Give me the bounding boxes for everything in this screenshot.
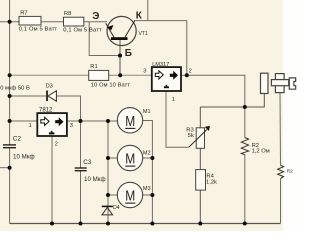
wire M3 left lead: [108, 194, 118, 196]
wire emitter-to-base branch: [89, 22, 120, 56]
capacitor C2: [3, 145, 16, 148]
svg-text:1: 1: [172, 97, 175, 103]
svg-text:2: 2: [189, 69, 192, 75]
node M3 left: [106, 193, 110, 197]
wire M2 left lead: [108, 157, 118, 159]
resistor R4: [196, 170, 206, 191]
regulator U2 7812: [37, 113, 67, 136]
svg-text:10 Мкф: 10 Мкф: [84, 176, 106, 183]
node gnd D4: [106, 222, 110, 226]
svg-text:M3: M3: [143, 186, 151, 192]
svg-text:M1: M1: [143, 109, 151, 115]
svg-text:D4: D4: [113, 205, 120, 211]
wire LM317 pin1 to R3 wiper: [166, 91, 189, 147]
capacitor C3: [75, 168, 87, 171]
svg-text:C2: C2: [13, 135, 22, 142]
svg-text:0,1 Ом 5 Ватт: 0,1 Ом 5 Ватт: [19, 26, 58, 32]
resistor R5 right load zigzag: [278, 165, 284, 178]
wire adj node row y107: [200, 94, 264, 108]
wire R1 row to LM317 pin3: [10, 74, 152, 76]
wire 7812 pin2 down: [51, 136, 53, 224]
node M2 left: [106, 156, 110, 160]
resistor R1: [89, 70, 109, 80]
node gnd 7812: [50, 222, 54, 226]
svg-text:M: M: [125, 189, 135, 205]
node left bus D3: [8, 94, 12, 98]
connector XP1 plug vertical: [275, 74, 284, 93]
wire C3 branch: [80, 121, 82, 224]
wire M3 right lead: [143, 194, 153, 196]
svg-text:7812: 7812: [39, 108, 53, 114]
resistor R8: [64, 17, 84, 26]
regulator U1 LM317: [152, 67, 181, 91]
node top-left corner: [8, 20, 12, 24]
connector XP1 plug bar: [271, 80, 288, 86]
wire R3-R4 link: [199, 148, 201, 169]
svg-text:R1: R1: [90, 64, 97, 70]
node base bypass junction: [118, 54, 122, 58]
node adj row cross: [243, 105, 247, 109]
svg-text:R2: R2: [287, 169, 293, 174]
wire left bus upper: [9, 0, 11, 145]
wire R2 bottom to ground rail: [244, 155, 246, 224]
wire C1 stub: [0, 167, 10, 169]
wire R4 bottom lead: [199, 190, 201, 223]
svg-text:3: 3: [143, 68, 146, 74]
svg-text:К: К: [136, 11, 143, 22]
node left bus C1 stub: [8, 166, 12, 170]
transistor VT1: [106, 16, 137, 45]
wire motors left bus: [107, 121, 109, 224]
wire right load branch lower: [280, 179, 282, 224]
node M2 right: [150, 156, 154, 160]
connector XS1 receptacle: [261, 73, 269, 93]
svg-text:VT1: VT1: [139, 31, 148, 37]
motor M1: [117, 108, 142, 133]
wire collector net to top edge: [147, 0, 149, 21]
svg-text:LM317: LM317: [152, 62, 169, 68]
svg-text:0 мкф 50 В: 0 мкф 50 В: [0, 86, 30, 92]
resistor R2 zigzag: [241, 138, 248, 155]
wire 7812 pin1: [10, 120, 38, 122]
svg-text:1,2 Ом: 1,2 Ом: [252, 148, 270, 154]
wire M1 right lead and right bus: [143, 121, 153, 224]
node base / R1 row: [118, 73, 122, 77]
node D3 out / pin3 row: [79, 119, 83, 123]
node collector / pin2: [185, 73, 189, 77]
wire 7812 pin3 to M1: [67, 120, 117, 122]
node left bus 7812 pin1: [8, 119, 12, 123]
wire M2 right lead: [143, 157, 153, 159]
svg-text:R8: R8: [64, 11, 71, 17]
svg-text:2: 2: [55, 141, 58, 147]
node M3 right: [150, 193, 154, 197]
svg-text:D3: D3: [46, 83, 53, 89]
motor M2: [117, 145, 142, 170]
node motors bus / pin3 row: [106, 119, 110, 123]
svg-text:C3: C3: [83, 159, 92, 166]
wire D3 row: [10, 96, 81, 121]
svg-text:Б: Б: [125, 48, 132, 59]
wire top supply rail: [0, 21, 107, 23]
resistor R7: [19, 16, 41, 25]
svg-text:3: 3: [70, 123, 73, 129]
node gnd right bus: [150, 222, 154, 226]
svg-text:1,2k: 1,2k: [206, 179, 217, 185]
svg-text:Э: Э: [92, 11, 99, 22]
diode D4: [102, 206, 113, 215]
svg-text:5k: 5k: [188, 133, 194, 139]
node gnd C3: [79, 222, 83, 226]
wire collector horizontal and down to pin2: [134, 21, 187, 76]
wire left bus lower: [9, 148, 11, 224]
svg-text:10 Мкф: 10 Мкф: [13, 153, 35, 160]
node gnd R2: [243, 222, 247, 226]
svg-text:M: M: [125, 152, 135, 168]
svg-text:M2: M2: [143, 151, 151, 157]
svg-text:0,1 Ом 5 Ватт: 0,1 Ом 5 Ватт: [63, 27, 102, 33]
motor M3: [117, 182, 142, 207]
svg-text:R7: R7: [20, 11, 27, 17]
svg-text:1: 1: [29, 123, 32, 129]
potentiometer R3: [189, 126, 210, 148]
svg-text:M: M: [125, 114, 135, 130]
connector XP1 jack bracket: [289, 78, 295, 89]
wire right load branch upper: [279, 93, 282, 166]
wire LM317 pin2 output row: [181, 75, 245, 137]
svg-text:10 Ом 10 Ватт: 10 Ом 10 Ватт: [91, 83, 131, 89]
wire base lead: [119, 40, 121, 75]
wire R3 top lead: [199, 107, 201, 128]
wire ground rail bottom: [10, 223, 281, 225]
diode D3: [47, 91, 56, 102]
node gnd R4: [198, 222, 202, 226]
node left bus R1: [8, 73, 12, 77]
